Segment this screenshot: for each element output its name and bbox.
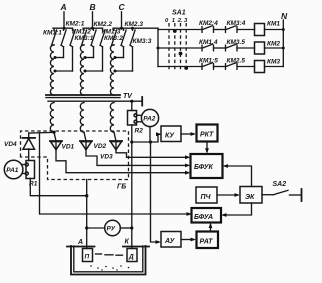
svg-text:ГБ: ГБ — [117, 184, 126, 191]
wire phase C feed — [121, 12, 123, 28]
svg-text:КМ1:5: КМ1:5 — [199, 58, 218, 65]
arrow into KU — [156, 132, 162, 136]
SA1 contact dot position 3 — [184, 66, 188, 70]
svg-text:РКТ: РКТ — [200, 132, 214, 139]
secondary winding A — [50, 103, 54, 133]
svg-text:КМ1: КМ1 — [267, 21, 280, 28]
wire N line — [282, 20, 284, 67]
wire coil KM1 to N — [265, 29, 284, 31]
wire R2 to PA2 top — [137, 114, 142, 116]
switch SA2 blade — [274, 190, 289, 194]
svg-text:КМ3.5: КМ3.5 — [227, 39, 246, 46]
wire row 1 mid — [214, 29, 226, 31]
wire anode electrode feed — [86, 180, 88, 249]
contact KM3:1 — [56, 28, 76, 71]
R2 terminal circles — [134, 114, 137, 117]
terminal tick (measuring winding output) — [141, 97, 143, 106]
wire sec B to VD2 — [84, 132, 86, 141]
svg-text:К: К — [125, 239, 130, 246]
contact KM1:2 — [82, 28, 87, 45]
secondary winding B — [80, 103, 84, 133]
sediment specks — [90, 265, 129, 270]
primary winding B (TV) — [80, 45, 84, 95]
svg-text:B: B — [90, 2, 96, 12]
svg-text:VD1: VD1 — [62, 144, 75, 151]
wire bar phase C and bus to SA1 — [113, 27, 158, 29]
block BFUK — [191, 154, 223, 178]
dashed block GB outline — [21, 131, 129, 180]
node RU right junction — [130, 226, 133, 229]
wire row 2 — [158, 47, 202, 49]
contact KM2:1 — [56, 28, 67, 57]
arrow into BFUK row 2 — [185, 164, 191, 168]
wire row 2 to coil — [237, 47, 255, 49]
primary winding A (TV) — [50, 45, 54, 95]
voltmeter RU — [105, 220, 121, 236]
svg-text:БФУА: БФУА — [194, 214, 213, 221]
wire PA1 to R1 bottom — [23, 173, 26, 175]
wire bar phase B — [83, 27, 103, 29]
svg-text:КУ: КУ — [165, 133, 175, 140]
SA1 contact dot position 2 — [179, 52, 183, 56]
svg-text:КМ2.3: КМ2.3 — [125, 21, 144, 28]
wire EK bottom to BFUA right — [224, 203, 252, 215]
svg-text:АУ: АУ — [164, 238, 176, 245]
wire PA2 bottom stub — [149, 127, 151, 142]
wire row 3 to coil — [237, 66, 255, 68]
node R2 top junction — [130, 100, 133, 103]
wire coil KM2 to N — [265, 47, 284, 49]
svg-text:РА1: РА1 — [6, 167, 19, 174]
svg-text:КМ3: КМ3 — [267, 59, 280, 66]
wire VD1 anode step to BFUK row 3 — [56, 150, 188, 173]
svg-text:ТV: ТV — [123, 93, 133, 100]
svg-text:R2: R2 — [135, 128, 144, 135]
switch SA1 position lines (dashed) — [168, 23, 170, 70]
svg-text:КМ2.5: КМ2.5 — [227, 58, 246, 65]
svg-text:БФУК: БФУК — [194, 164, 214, 171]
node VD4 branch junction — [52, 131, 55, 134]
wire TV tap to R2 — [131, 101, 133, 110]
svg-text:ПЧ: ПЧ — [201, 194, 212, 201]
bath tank — [67, 246, 149, 275]
wire node link R2-PA2 bottom — [132, 141, 151, 143]
block EK — [240, 187, 262, 204]
node tap C2 — [114, 70, 117, 73]
switch SA2 fixed terminal — [301, 189, 303, 201]
voltmeter PA2 — [141, 109, 158, 126]
wire PA2 node down to AU — [151, 142, 159, 242]
wire R1 bottom to A-bus — [30, 179, 86, 196]
diode VD4 — [23, 133, 36, 161]
contact KM1:4 — [202, 44, 214, 51]
contact KM3:2 — [86, 28, 106, 71]
svg-text:П: П — [85, 254, 90, 261]
SA1 contact dot position 1 — [173, 29, 177, 33]
contact KM2:5 — [226, 63, 238, 70]
wire sec C to VD3 — [114, 132, 116, 141]
wire row 3 — [158, 66, 202, 68]
primary winding C (TV) — [110, 45, 114, 95]
contact KM1:1 — [52, 28, 57, 45]
svg-text:КМ2.2: КМ2.2 — [94, 21, 113, 28]
node tap A2 — [54, 70, 57, 73]
arrow into BFUK row 1 — [185, 155, 191, 159]
arrow into BFUA left — [187, 212, 193, 216]
svg-text:КМ1:1: КМ1:1 — [43, 29, 62, 36]
contact KM3:3 — [116, 28, 136, 71]
wire PA1 to R1 top — [23, 164, 26, 166]
svg-text:ЭК: ЭК — [245, 194, 255, 201]
svg-text:VD3: VD3 — [100, 154, 113, 161]
node RU left junction — [85, 226, 88, 229]
wire row 1 — [158, 29, 202, 31]
wire bar phase A — [53, 27, 73, 29]
arrow into BFUK row 3 — [185, 171, 191, 175]
wire R2 bottom down to bath K — [131, 125, 133, 249]
node tap A1 — [54, 56, 57, 59]
resistor R1 (shunt) — [26, 161, 35, 179]
svg-text:Д: Д — [128, 254, 134, 261]
block RAT — [197, 232, 219, 249]
wire EK top to BFUK right — [226, 166, 252, 187]
arrow AU to RAT — [181, 239, 194, 241]
wire RU left — [87, 227, 105, 229]
block RKT — [197, 125, 218, 142]
coil KM3 — [255, 61, 265, 73]
contact KM3:5 — [226, 44, 238, 51]
diode VD3 — [110, 141, 122, 150]
node tap B2 — [84, 70, 87, 73]
electrolyte level dashes — [96, 254, 123, 255]
contact KM2:3 — [116, 28, 127, 57]
contact KM1:3 — [112, 28, 117, 45]
svg-text:SA2: SA2 — [273, 181, 287, 188]
wire row 2 mid — [214, 47, 226, 49]
block KU — [161, 126, 181, 142]
svg-text:А: А — [77, 239, 83, 246]
block AU — [161, 232, 181, 248]
svg-text:КМ1.4: КМ1.4 — [199, 39, 218, 46]
svg-text:КМ3:3: КМ3:3 — [133, 38, 152, 45]
block PCH — [196, 187, 217, 203]
contact KM3:4 — [226, 26, 238, 33]
svg-text:C: C — [119, 2, 126, 12]
svg-text:РУ: РУ — [107, 226, 116, 233]
wire VD2 anode step to BFUK row 2 — [86, 150, 188, 166]
node PA2 bottom — [149, 140, 152, 143]
wire coil KM3 to N — [265, 66, 284, 68]
electrode D (cathode plate) — [127, 249, 137, 262]
secondary winding C — [110, 103, 114, 133]
wire VD3 anode step to BFUK row 1 — [116, 150, 188, 158]
ammeter PA1 — [4, 160, 23, 179]
contact KM1:5 — [202, 63, 214, 70]
wire SA1 left bus — [157, 28, 159, 66]
svg-text:VD2: VD2 — [94, 143, 107, 150]
node A-bus junction — [85, 194, 88, 197]
node tap C1 — [114, 56, 117, 59]
arrow into AU — [156, 240, 162, 244]
R1 terminal circles — [25, 163, 28, 166]
diode VD2 — [80, 141, 92, 150]
arrow KU to RKT — [181, 133, 194, 135]
svg-text:N: N — [281, 11, 288, 21]
svg-text:A: A — [60, 2, 67, 12]
electrode P (anode plate) — [83, 249, 93, 262]
contact KM2:2 — [86, 28, 97, 57]
svg-text:КМ1:2: КМ1:2 — [72, 28, 91, 35]
node R2 bottom — [130, 140, 133, 143]
transformer TV core — [46, 95, 142, 101]
wire EK to SA2 — [262, 194, 274, 196]
wire sec A to VD1 — [54, 132, 56, 141]
svg-text:КМ3:4: КМ3:4 — [227, 20, 246, 27]
wire row 3 mid — [214, 66, 226, 68]
wire VD4 cathode to node A — [29, 131, 54, 134]
wire RU right — [120, 227, 132, 229]
arrow RKT to BFUK — [206, 142, 208, 152]
arrow RAT to BFUA — [210, 225, 212, 232]
wire row 1 to coil — [237, 29, 255, 31]
block BFUA — [192, 208, 222, 223]
resistor R2 — [128, 111, 137, 126]
contact KM2:4 — [202, 26, 214, 33]
wire R2 to PA2 bottom — [137, 121, 142, 123]
svg-text:РАТ: РАТ — [200, 239, 214, 246]
svg-text:SA1: SA1 — [172, 10, 186, 17]
svg-text:КМ2:1: КМ2:1 — [66, 21, 85, 28]
svg-text:VD4: VD4 — [4, 141, 17, 148]
node tap B1 — [84, 56, 87, 59]
arrow PCH to EK — [217, 194, 238, 196]
wire phase B feed — [92, 12, 94, 28]
wire to KU input — [151, 134, 160, 142]
wire phase A feed — [63, 12, 65, 28]
switch SA2 fixed lead — [290, 194, 302, 196]
svg-text:КМ2:4: КМ2:4 — [199, 20, 218, 27]
svg-text:КМ2: КМ2 — [267, 41, 280, 48]
coil KM1 — [255, 24, 265, 36]
svg-text:КМ1:3: КМ1:3 — [102, 28, 121, 35]
coil KM2 — [255, 42, 265, 54]
wire negative bus from cathode node down — [40, 133, 190, 214]
svg-text:РА2: РА2 — [143, 115, 156, 122]
diode VD1 — [50, 141, 62, 150]
